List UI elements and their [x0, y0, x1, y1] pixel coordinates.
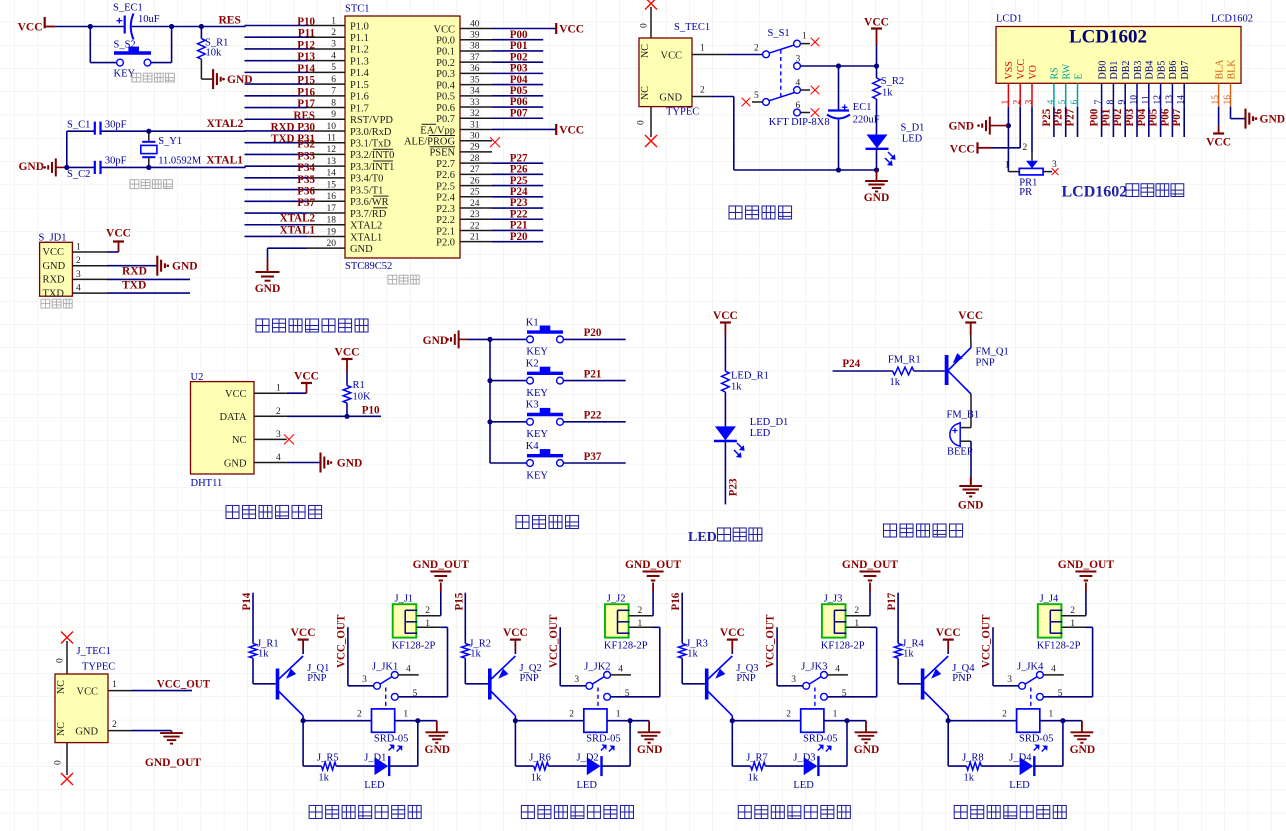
svg-text:11.0592M: 11.0592M	[158, 156, 202, 167]
wire	[712, 96, 734, 98]
svg-text:STC89C52: STC89C52	[345, 261, 392, 272]
svg-text:DHT11: DHT11	[191, 478, 223, 489]
LED J_D4	[1020, 757, 1034, 775]
svg-text:GND_OUT: GND_OUT	[1058, 559, 1115, 571]
svg-text:2: 2	[1002, 710, 1007, 720]
svg-text:P00: P00	[1089, 108, 1101, 126]
pin 35 STC1 P0.4	[460, 84, 492, 86]
svg-text:LED: LED	[1009, 780, 1030, 791]
svg-text:10: 10	[1130, 95, 1140, 105]
svg-text:DB4: DB4	[1145, 61, 1156, 80]
LED J_D1	[375, 757, 389, 775]
transistor FM_Q1 PNP	[945, 355, 949, 385]
title 按键电路	[516, 515, 529, 528]
power port VCC (DHT11)	[306, 383, 308, 393]
svg-text:FM_R1: FM_R1	[888, 354, 921, 365]
svg-text:NC: NC	[232, 435, 247, 446]
svg-text:LED: LED	[688, 530, 717, 545]
svg-text:P0.0: P0.0	[436, 36, 455, 47]
svg-text:P03: P03	[1124, 108, 1136, 126]
pin 22 STC1 P2.1	[460, 229, 492, 231]
svg-text:2: 2	[357, 710, 362, 720]
svg-text:DB7: DB7	[1180, 61, 1191, 80]
svg-text:25: 25	[470, 188, 480, 198]
svg-text:P27: P27	[1065, 108, 1077, 126]
wire	[492, 241, 543, 243]
svg-text:DB3: DB3	[1133, 61, 1144, 80]
wire	[107, 265, 157, 267]
svg-text:ALE/PROG: ALE/PROG	[404, 137, 455, 148]
pin 37 STC1 P0.2	[460, 61, 492, 63]
wire	[464, 593, 466, 644]
svg-text:3: 3	[331, 40, 336, 50]
svg-text:1: 1	[76, 243, 81, 253]
crystal S_Y1 11.0592M	[148, 131, 150, 141]
wire (LCD VCC pin2)	[1019, 107, 1021, 148]
pin 29 STC1 PSEN	[460, 151, 492, 153]
no-connect (J_TEC1 bottom)	[66, 743, 68, 775]
svg-text:28: 28	[470, 154, 480, 164]
resistor J_R8 1k	[967, 762, 982, 770]
wire	[914, 370, 945, 372]
svg-text:P05: P05	[510, 85, 528, 97]
svg-text:P17: P17	[297, 98, 315, 110]
wire	[252, 658, 254, 684]
transistor J_Q3 PNP	[705, 669, 709, 700]
ground (relay 2)	[648, 721, 650, 733]
svg-text:P11: P11	[298, 28, 315, 40]
pin 31 STC1 EA/Vpp	[460, 128, 492, 130]
svg-text:S_TEC1: S_TEC1	[674, 22, 710, 33]
wire	[302, 650, 304, 654]
node junction	[487, 419, 492, 424]
svg-text:PNP: PNP	[976, 358, 995, 369]
wire (JK pin4 stub)	[610, 674, 631, 676]
wire	[492, 61, 543, 63]
svg-text:S_S2: S_S2	[114, 39, 136, 50]
wire	[245, 107, 308, 109]
wire	[731, 650, 733, 654]
pin 2 S_JD1	[72, 265, 107, 267]
wire (coil pin2)	[948, 720, 1016, 722]
svg-text:P1.1: P1.1	[350, 33, 369, 44]
capacitor S_C2 30pF	[94, 161, 96, 174]
wire	[970, 441, 972, 486]
pin 1 S_TEC1	[692, 54, 728, 56]
wire	[245, 153, 308, 155]
svg-text:8: 8	[1106, 100, 1116, 105]
svg-text:R1: R1	[353, 380, 365, 391]
node junction	[88, 24, 93, 29]
svg-text:11: 11	[327, 134, 336, 144]
svg-text:12: 12	[1153, 95, 1163, 105]
svg-text:P22: P22	[510, 208, 528, 220]
svg-text:11: 11	[1141, 95, 1151, 104]
svg-text:38: 38	[470, 42, 480, 52]
svg-text:VCC: VCC	[294, 371, 319, 383]
svg-text:J_D3: J_D3	[793, 752, 815, 763]
svg-text:P3.1/TxD: P3.1/TxD	[350, 139, 391, 150]
svg-text:1k: 1k	[890, 377, 901, 388]
wire	[245, 235, 308, 237]
pin 1 J_J1	[416, 626, 440, 628]
svg-text:VCC: VCC	[958, 310, 983, 322]
pin 28 STC1 P2.7	[460, 162, 492, 164]
svg-text:4: 4	[796, 79, 801, 89]
svg-text:DB6: DB6	[1168, 61, 1179, 80]
svg-text:P35: P35	[297, 174, 315, 186]
svg-text:P01: P01	[510, 40, 528, 52]
wire	[724, 441, 726, 504]
pin 8 STC1 P1.7	[307, 107, 345, 109]
svg-text:VCC: VCC	[43, 247, 64, 258]
wire	[287, 462, 320, 464]
wire (coil pin1)	[1040, 720, 1063, 722]
svg-text:KF128-2P: KF128-2P	[821, 641, 865, 652]
pin 1 J_J2	[629, 626, 653, 628]
wire	[464, 658, 466, 684]
pin 20 STC1 GND	[307, 247, 345, 249]
svg-text:31: 31	[470, 120, 480, 130]
svg-text:21: 21	[470, 232, 480, 242]
svg-text:GND_OUT: GND_OUT	[842, 559, 899, 571]
LED S_D1	[867, 135, 888, 149]
svg-text:P32: P32	[297, 139, 315, 151]
resistor R1 10K	[346, 372, 348, 386]
wire	[1077, 107, 1079, 137]
svg-text:GND: GND	[948, 120, 974, 132]
svg-text:GND: GND	[172, 261, 198, 273]
svg-text:J_R7: J_R7	[746, 752, 768, 763]
svg-text:NC: NC	[56, 722, 67, 736]
svg-text:P3.2/INT0: P3.2/INT0	[350, 150, 394, 161]
wire	[563, 421, 626, 423]
power port VCC (LCD left)	[978, 147, 993, 149]
resistor S_R2 1k	[876, 66, 878, 78]
svg-text:KFT DIP-8X8: KFT DIP-8X8	[769, 117, 830, 128]
transistor J_Q1 PNP	[276, 669, 280, 700]
svg-text:1: 1	[854, 619, 859, 629]
wire	[492, 196, 543, 198]
svg-text:PSEN: PSEN	[429, 148, 455, 159]
svg-text:2: 2	[1070, 606, 1075, 616]
svg-text:RS: RS	[1050, 67, 1061, 79]
pin 1 U2 VCC	[254, 392, 287, 394]
svg-text:FM_B1: FM_B1	[947, 410, 980, 421]
ground (buzzer)	[970, 478, 972, 487]
svg-text:P01: P01	[1100, 109, 1112, 127]
svg-text:XTAL2: XTAL2	[207, 118, 244, 130]
pin 2 J_J3	[846, 615, 871, 617]
svg-text:LCD1602: LCD1602	[1062, 184, 1128, 201]
title 继电器控制电路 (relay 2)	[521, 805, 534, 818]
svg-text:13: 13	[327, 157, 337, 167]
wire	[490, 380, 527, 382]
wire (DATA)	[287, 415, 381, 417]
wire	[492, 50, 543, 52]
wire (coil pin2)	[732, 720, 800, 722]
svg-text:1: 1	[700, 44, 705, 54]
no-connect PR1 pin3	[1052, 168, 1059, 175]
svg-text:VCC_OUT: VCC_OUT	[765, 614, 777, 668]
wire	[132, 690, 192, 692]
svg-text:GND: GND	[337, 457, 363, 469]
svg-text:VCC: VCC	[559, 24, 584, 36]
resistor J_R5 1k	[321, 762, 336, 770]
svg-text:XTAL2: XTAL2	[280, 213, 316, 225]
svg-text:GND_OUT: GND_OUT	[145, 757, 202, 769]
svg-text:1: 1	[276, 384, 281, 394]
svg-text:P15: P15	[297, 75, 315, 87]
wire (key bus)	[489, 339, 491, 463]
svg-text:1: 1	[112, 680, 117, 690]
svg-text:VCC_OUT: VCC_OUT	[981, 614, 993, 668]
wire (bottom branch)	[731, 721, 733, 766]
ground (STC1)	[267, 258, 269, 272]
svg-text:2: 2	[854, 606, 859, 616]
svg-text:DB5: DB5	[1156, 61, 1167, 80]
svg-text:2: 2	[1013, 100, 1023, 105]
wire (bottom branch)	[947, 721, 949, 766]
svg-text:LCD1: LCD1	[996, 14, 1022, 25]
wire	[1112, 107, 1114, 137]
svg-text:P1.2: P1.2	[350, 45, 369, 56]
svg-text:P3.6/WR: P3.6/WR	[350, 197, 389, 208]
svg-text:P3.5/T1: P3.5/T1	[350, 185, 383, 196]
svg-text:VCC_OUT: VCC_OUT	[157, 679, 211, 691]
wire (coil pin1)	[607, 720, 630, 722]
wire	[245, 212, 308, 214]
pin 27 STC1 P2.6	[460, 173, 492, 175]
node junction	[415, 718, 420, 723]
svg-text:P3.4/T0: P3.4/T0	[350, 174, 383, 185]
svg-text:K4: K4	[526, 441, 540, 452]
svg-text:XTAL1: XTAL1	[350, 232, 382, 243]
wire	[1160, 107, 1162, 137]
pin 1 J_TEC1	[108, 690, 132, 692]
ground GND_OUT (J_TEC1)	[171, 731, 173, 734]
wire	[1136, 107, 1138, 137]
svg-text:6: 6	[1070, 100, 1080, 105]
svg-text:J_R6: J_R6	[529, 752, 551, 763]
wire	[630, 720, 649, 722]
capacitor S_C1 30pF	[94, 122, 96, 135]
svg-text:P0.1: P0.1	[436, 47, 455, 58]
svg-text:1: 1	[616, 710, 621, 720]
svg-text:P10: P10	[362, 405, 380, 417]
no-connect (S_TEC1 bottom)	[650, 107, 652, 137]
pin 2 STC1 P1.1	[307, 36, 345, 38]
comment text 晶振电路	[130, 180, 139, 189]
wire	[602, 765, 631, 767]
ground (LCD right)	[1244, 109, 1246, 129]
svg-text:4: 4	[1051, 665, 1056, 675]
svg-text:P24: P24	[842, 358, 860, 370]
ground (power circuit)	[876, 170, 878, 181]
svg-text:P02: P02	[510, 51, 528, 63]
pin 39 STC1 P0.0	[460, 39, 492, 41]
svg-text:29: 29	[470, 143, 480, 153]
svg-text:30pF: 30pF	[105, 119, 127, 130]
svg-text:VCC: VCC	[864, 17, 889, 29]
resistor J_R6 1k	[534, 762, 549, 770]
transistor J_Q4 PNP	[921, 669, 925, 700]
svg-text:P15: P15	[453, 592, 465, 610]
node junction	[730, 718, 735, 723]
wire	[1148, 107, 1150, 137]
wire	[1124, 107, 1126, 137]
pin 33 STC1 P0.6	[460, 106, 492, 108]
svg-text:RXD: RXD	[43, 275, 65, 286]
pin 2 U2 DATA	[254, 415, 287, 417]
svg-text:0: 0	[54, 760, 64, 765]
svg-text:GND: GND	[425, 744, 451, 756]
pin 23 STC1 P2.2	[460, 218, 492, 220]
wire	[245, 142, 308, 144]
svg-text:LED: LED	[750, 428, 771, 439]
svg-text:GND: GND	[1070, 744, 1096, 756]
wire	[245, 200, 308, 202]
svg-text:P2.2: P2.2	[436, 215, 455, 226]
svg-text:GND: GND	[864, 192, 890, 204]
wire	[89, 27, 91, 63]
svg-text:P1.7: P1.7	[350, 103, 369, 114]
svg-text:P21: P21	[510, 220, 528, 232]
svg-text:VCC: VCC	[720, 627, 745, 639]
svg-text:P2.1: P2.1	[436, 226, 455, 237]
svg-text:P3.0/RxD: P3.0/RxD	[350, 127, 392, 138]
svg-text:2: 2	[425, 606, 430, 616]
wire	[724, 392, 726, 426]
wire	[492, 95, 543, 97]
svg-text:GND: GND	[255, 283, 281, 295]
wire (JK pin5)	[1043, 696, 1093, 698]
wire	[492, 185, 543, 187]
svg-text:BLA: BLA	[1214, 59, 1225, 80]
svg-text:P13: P13	[297, 51, 315, 63]
pin 3 STC1 P1.2	[307, 48, 345, 50]
svg-text:1k: 1k	[687, 649, 698, 660]
wire	[947, 650, 949, 654]
svg-text:P20: P20	[510, 231, 528, 243]
pin 4 U2 GND	[254, 462, 287, 464]
pin 2 J_TEC1	[108, 730, 132, 732]
wire	[151, 62, 172, 64]
svg-text:RW: RW	[1062, 63, 1073, 79]
node junction	[946, 718, 951, 723]
svg-text:SRD-05: SRD-05	[374, 733, 408, 744]
svg-text:EC1: EC1	[853, 102, 872, 113]
svg-text:2: 2	[76, 256, 81, 266]
wire	[1065, 107, 1067, 137]
svg-text:P25: P25	[1041, 108, 1053, 126]
wire	[492, 128, 556, 130]
relay coil SRD-05 (circuit 2)	[584, 709, 607, 732]
wire	[492, 28, 556, 30]
pushbutton S_S2 KEY	[117, 59, 124, 66]
svg-text:KF128-2P: KF128-2P	[1037, 641, 1081, 652]
wire (JK pin5)	[827, 696, 877, 698]
wire	[302, 716, 304, 721]
svg-text:P37: P37	[297, 197, 315, 209]
svg-text:S_C1: S_C1	[67, 119, 90, 130]
svg-text:37: 37	[470, 53, 480, 63]
pin 26 STC1 P2.5	[460, 185, 492, 187]
svg-text:1k: 1k	[318, 773, 329, 784]
svg-text:2: 2	[700, 86, 705, 96]
title 单片机最小系统	[256, 319, 269, 332]
svg-text:TYPEC: TYPEC	[666, 107, 699, 118]
wire	[728, 54, 763, 56]
svg-text:S_Y1: S_Y1	[158, 136, 182, 147]
ground (relay 1)	[436, 721, 438, 733]
svg-text:3: 3	[276, 430, 281, 440]
svg-text:4: 4	[276, 453, 281, 463]
svg-text:P2.5: P2.5	[436, 181, 455, 192]
potentiometer PR1	[1031, 152, 1033, 161]
wire (BLA pin15)	[1218, 107, 1220, 126]
pin 10 STC1 P3.0/RxD	[307, 130, 345, 132]
pin 2 S_TEC1	[692, 96, 712, 98]
wire	[492, 229, 543, 231]
wire	[549, 765, 587, 767]
LED J_D2	[587, 757, 601, 775]
wire (JK pin3 to VCC_OUT)	[993, 685, 1019, 687]
svg-text:P34: P34	[297, 162, 315, 174]
svg-text:10: 10	[327, 122, 337, 132]
no-connect pins S_S1	[811, 38, 820, 47]
svg-text:J_J1: J_J1	[395, 594, 414, 605]
ground GND_OUT (relay 3)	[869, 583, 871, 593]
wire	[490, 421, 527, 423]
wire	[336, 765, 374, 767]
node junction	[844, 718, 849, 723]
resistor S_R1 10k	[200, 27, 202, 39]
wire	[245, 71, 308, 73]
svg-text:P22: P22	[584, 410, 602, 422]
svg-text:22: 22	[470, 221, 480, 231]
svg-text:P10: P10	[297, 16, 315, 28]
svg-text:5: 5	[1058, 100, 1068, 105]
wire	[652, 592, 654, 616]
pin 36 STC1 P0.3	[460, 72, 492, 74]
node junction	[344, 414, 349, 419]
svg-text:2: 2	[276, 407, 281, 417]
svg-text:LED_D1: LED_D1	[750, 417, 789, 428]
pin 11 STC1 P3.1/TxD	[307, 142, 345, 144]
wire	[563, 462, 626, 464]
svg-text:10uF: 10uF	[138, 14, 160, 25]
svg-text:P21: P21	[584, 368, 602, 380]
pin 16 STC1 P3.6/WR	[307, 200, 345, 202]
svg-text:1: 1	[425, 619, 430, 629]
svg-text:P0.5: P0.5	[436, 92, 455, 103]
wire (GND pin 20)	[268, 247, 308, 249]
svg-text:2: 2	[331, 28, 336, 38]
wire	[440, 592, 442, 616]
svg-text:KF128-2P: KF128-2P	[604, 641, 648, 652]
svg-text:KEY: KEY	[526, 347, 548, 358]
wire	[876, 45, 878, 66]
svg-text:P0.7: P0.7	[436, 114, 455, 125]
svg-text:P07: P07	[1171, 108, 1183, 126]
svg-text:VCC: VCC	[936, 627, 961, 639]
svg-text:VCC: VCC	[434, 24, 455, 35]
svg-text:VCC: VCC	[559, 124, 584, 136]
svg-text:P0.6: P0.6	[436, 103, 455, 114]
svg-text:18: 18	[327, 216, 337, 226]
wire	[56, 26, 124, 28]
